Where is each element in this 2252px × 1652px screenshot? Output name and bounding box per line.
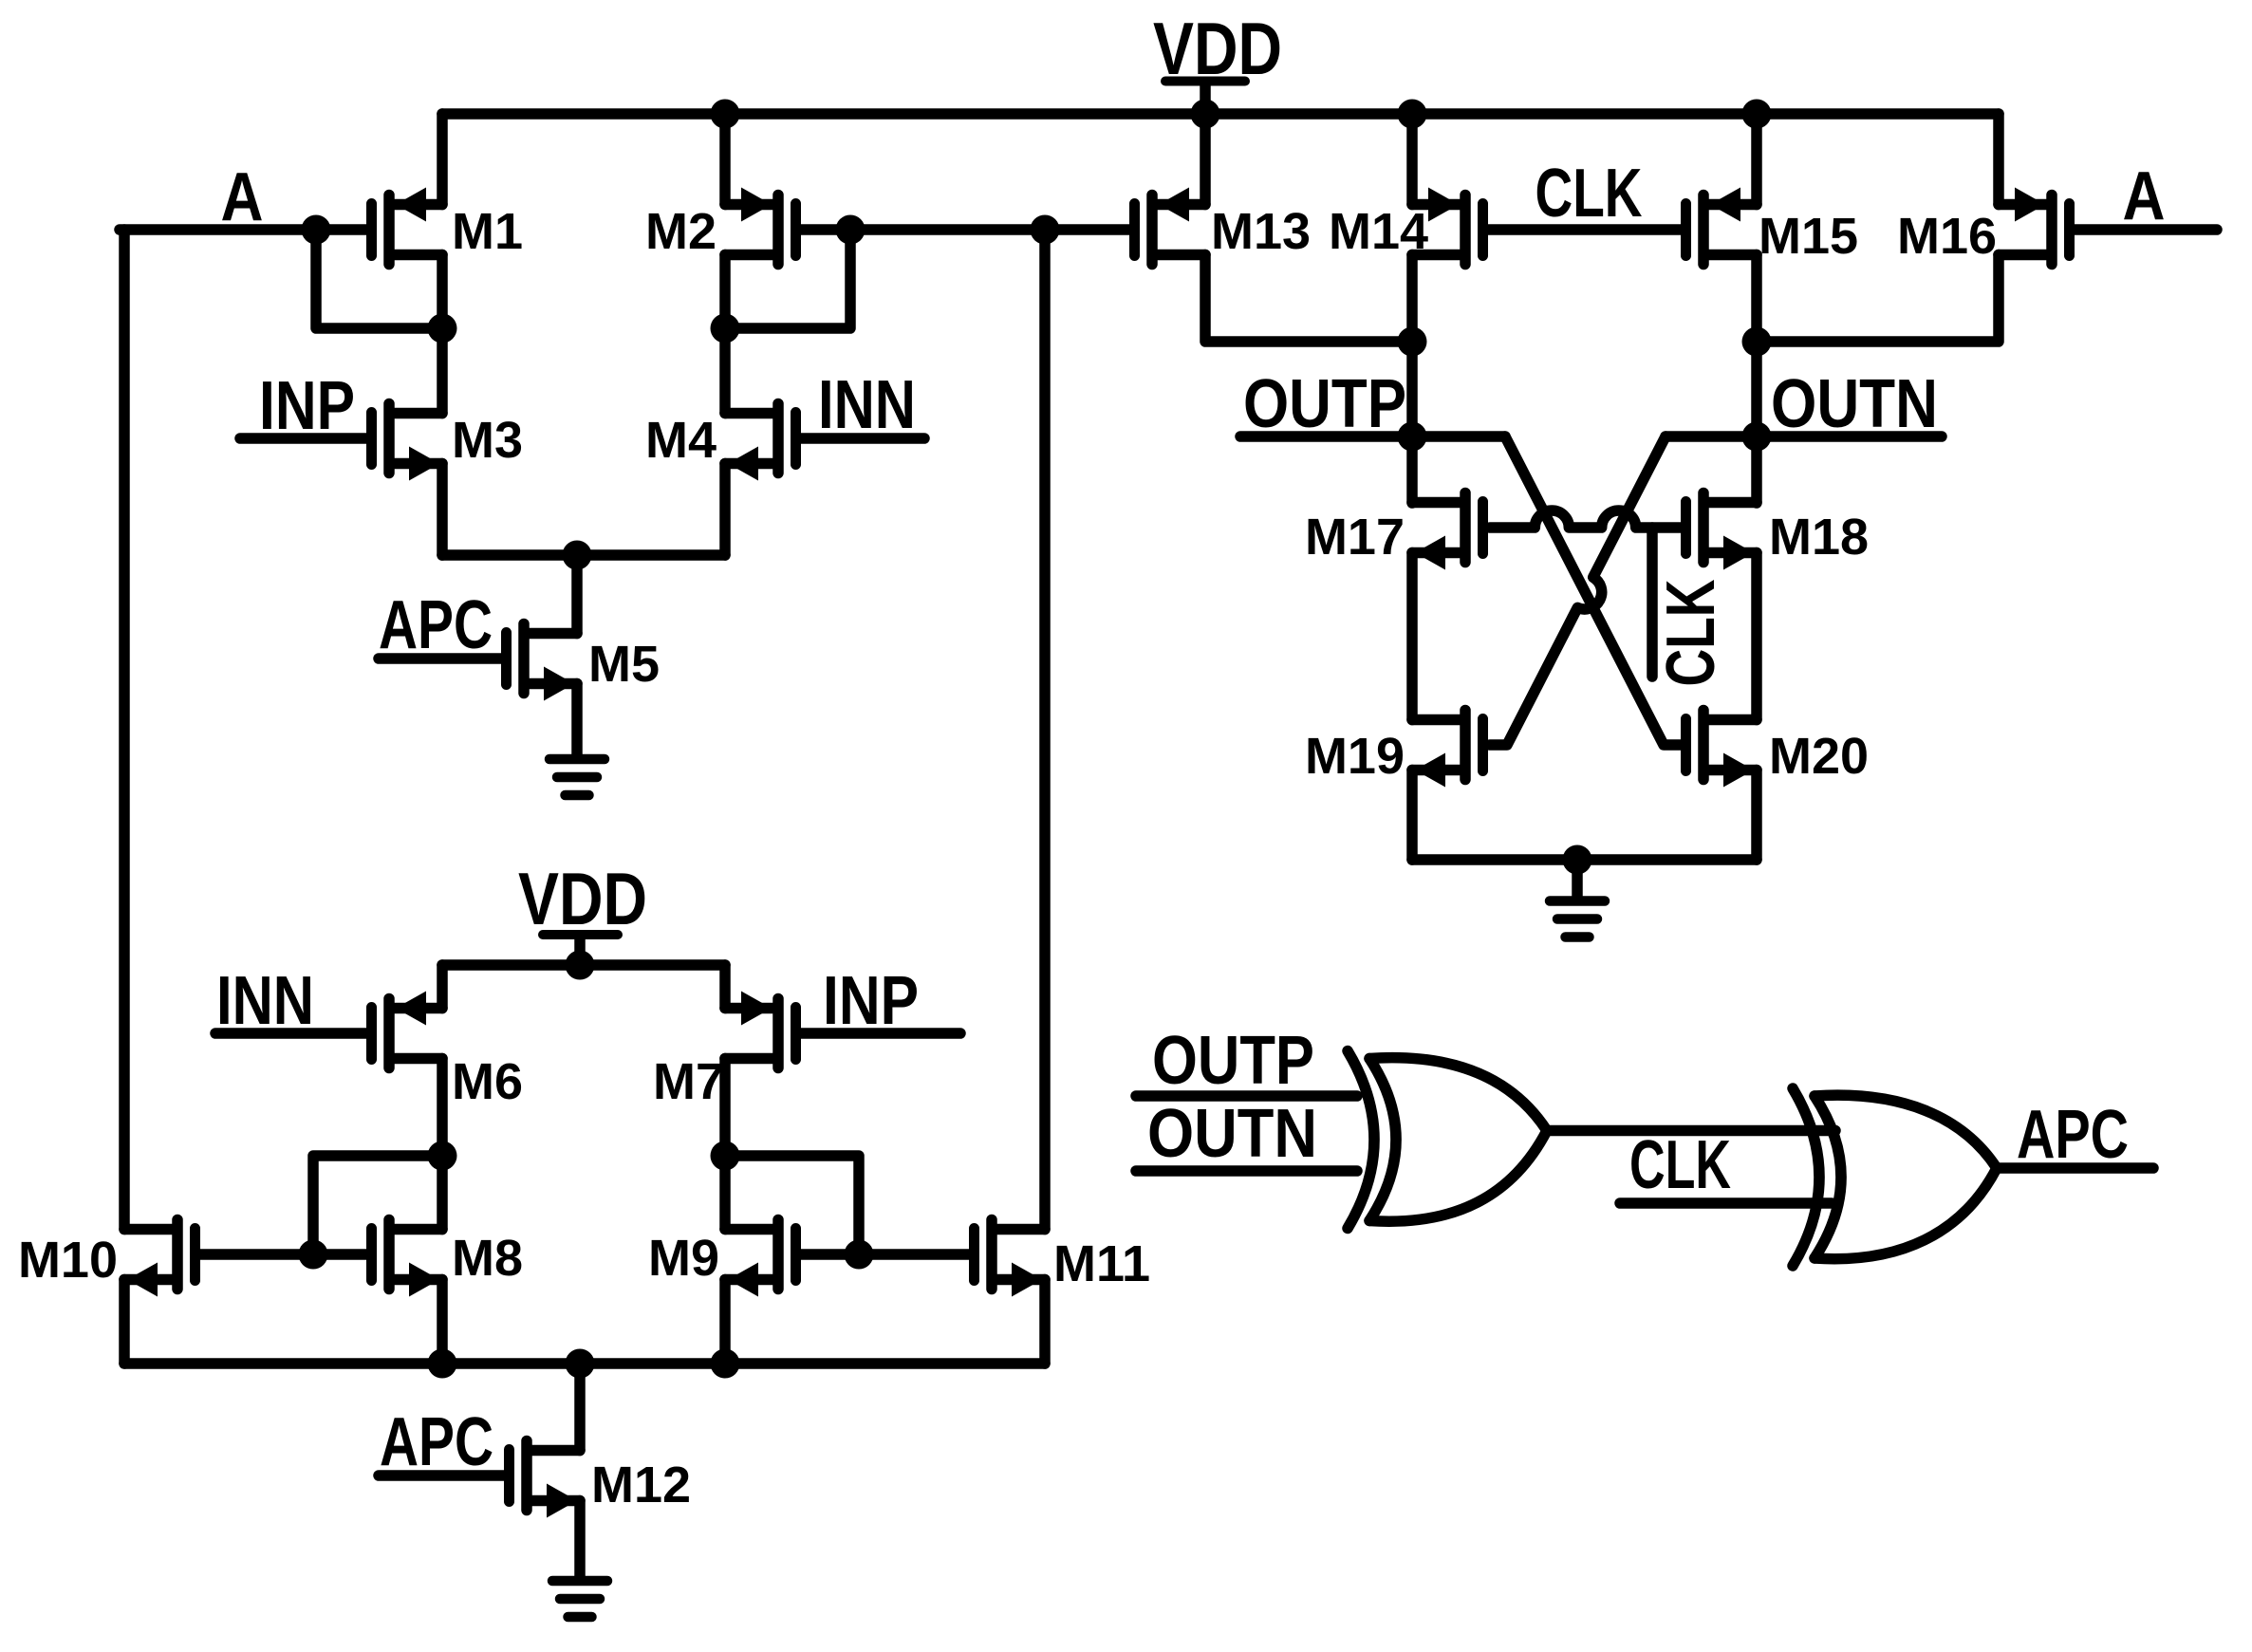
wire node A to M1 gate [120,224,366,235]
junction M9 gate / loop [845,1240,874,1270]
wire M14 source drop [1406,114,1418,205]
transistor M18 (NMOS) [1686,493,1870,570]
transistor M16 (PMOS) [1897,188,2070,266]
node OUTP (XOR input) [1152,1023,1314,1099]
wire M20 source to latch rail [1751,770,1762,861]
transistor M11 (NMOS) [975,1220,1151,1297]
junction rail / M14 source [1398,100,1427,129]
node APC (bottom) [380,1404,493,1480]
svg-text:M12: M12 [591,1457,691,1513]
transistor M14 (PMOS) [1329,188,1483,265]
wire M13 source drop [1200,114,1211,205]
transistor M5 (NMOS) [507,624,661,701]
wire VDD rail [442,108,1999,120]
transistor M6 (PMOS) [372,992,524,1111]
wire OUTP label wire [1240,431,1505,442]
wire VDD stub (bottom) [574,938,586,965]
svg-text:INN: INN [818,367,916,443]
wire M16 drain to OUTN [1757,255,1999,343]
transistor M17 (NMOS) [1305,493,1483,570]
junction latch rail / ground [1563,845,1592,875]
wire M9 mirror loop [725,1156,859,1249]
svg-text:A: A [221,159,264,235]
svg-text:M9: M9 [648,1230,719,1287]
svg-text:M2: M2 [645,203,717,260]
wire APC output [1997,1162,2153,1174]
svg-text:INN: INN [216,963,314,1039]
transistor M1 (PMOS) [372,188,524,265]
wire M6 source drop [437,965,448,1009]
wire M9 gate to M11 gate [801,1249,969,1260]
wire OUTP to M20 gate (diagonal) [1505,436,1681,745]
wire INP to M3 gate [240,433,366,444]
junction M8 gate / loop [299,1240,328,1270]
transistor M7 (PMOS) [653,992,796,1111]
XOR gate U1 (OUTP xor OUTN) [1348,1051,1547,1229]
transistor M19 (NMOS) [1305,711,1483,788]
wire M15 drain drop [1751,255,1762,343]
wire M5 source to ground [571,684,583,755]
wire latch ground stub [1572,860,1583,896]
svg-text:VDD: VDD [518,857,647,940]
svg-text:APC: APC [2017,1097,2129,1173]
wire M1 source drop [437,114,448,205]
junction tail / M5 drain [563,541,592,570]
transistor M12 (NMOS) [510,1441,692,1518]
svg-text:A: A [2123,158,2166,234]
wire M2 diode loop [731,230,850,328]
wire M10 gate to M8 gate [200,1249,366,1260]
svg-text:OUTN: OUTN [1147,1096,1317,1172]
node CLK (XOR input) [1629,1127,1731,1203]
svg-text:M17: M17 [1305,509,1405,566]
svg-text:M16: M16 [1897,208,1997,265]
wire OUTP to XOR1 [1136,1090,1357,1102]
wire M11 source drop [1039,1280,1051,1364]
wire latch gate rail M17-M18 (with hops) [1490,510,1681,528]
wire net B down to M11 gate [1039,230,1051,1230]
svg-text:INP: INP [823,963,919,1039]
transistor M20 (NMOS) [1686,711,1870,788]
wire OUTN label wire [1666,431,1942,442]
wire M12 drain stub [574,1364,586,1451]
wire VDD rail (bottom) [442,959,725,971]
wire latch bottom rail [1412,854,1757,865]
wire M4 source to tail [719,464,731,556]
svg-text:M10: M10 [18,1232,118,1289]
wire CLK to XOR2 [1620,1197,1832,1209]
wire VDD stub [1200,85,1211,115]
wire M2 source drop [719,114,731,205]
wire CLK stub (latch) [1647,528,1658,677]
svg-text:M8: M8 [452,1230,523,1287]
ground below M5 [549,759,605,795]
svg-text:CLK: CLK [1535,156,1643,232]
transistor M3 (NMOS) [372,404,524,481]
svg-text:M13: M13 [1211,203,1311,260]
junction OUTN / label wire [1742,422,1772,452]
wire M17 source to M19 drain [1406,553,1418,720]
junction M7 drain / mirror loop [711,1142,740,1171]
svg-text:OUTP: OUTP [1243,366,1406,442]
svg-text:APC: APC [380,1404,493,1480]
junction rail / M15 source [1742,100,1772,129]
node INN (top) [818,367,916,443]
ground below latch [1550,901,1605,937]
wire M5 drain stub [571,555,583,634]
svg-text:CLK: CLK [1653,580,1729,687]
wire XOR1 output [1547,1125,1835,1137]
wire M2 gate to M13 gate (net B) [801,224,1129,235]
XOR gate U2 (-> APC) [1793,1088,1997,1266]
transistor M15 (PMOS) [1686,188,1859,266]
node INN (bottom) [216,963,314,1039]
node OUTN (latch) [1771,366,1938,442]
node APC (XOR output) [2017,1097,2129,1173]
junction rail / M2 source [711,100,740,129]
node OUTN (XOR input) [1147,1096,1317,1172]
wire M16 source drop [1993,114,2004,205]
wire INN to M6 gate [215,1028,366,1039]
node INP (bottom) [823,963,919,1039]
wire M7 source drop [719,965,731,1009]
wire M9 source drop [719,1280,731,1364]
wire M14 drain / OUTP vertical [1406,255,1418,504]
svg-text:APC: APC [379,587,493,663]
node VDD (bottom) [518,857,647,940]
wire M18 source to M20 drain [1751,553,1762,720]
wire M13 drain to OUTP [1205,255,1412,343]
wire M3 source to tail [437,464,448,556]
junction net B / M11 gate branch [1031,215,1060,245]
node INP (top) [259,368,355,444]
transistor M2 (PMOS) [645,188,796,265]
svg-text:M5: M5 [588,636,660,693]
junction M2 drain / loop [711,314,740,343]
junction M6 drain / mirror loop [428,1142,457,1171]
wire left rail (A to M10 drain) [119,230,130,1230]
junction VDD stub / rail [1191,100,1220,129]
transistor M13 (PMOS) [1135,188,1312,265]
wire M15 source drop [1751,114,1762,205]
wire M2 drain to M4 drain [719,255,731,414]
svg-text:M11: M11 [1053,1235,1150,1292]
junction net B / M2 loop [836,215,865,245]
wire M8 source drop [437,1280,448,1364]
junction tail rail / M8 [428,1349,457,1379]
wire M10 source drop [119,1280,130,1364]
wire OUTN to XOR1 [1136,1165,1357,1177]
svg-text:M7: M7 [653,1053,724,1110]
wire INP to M7 gate [801,1028,960,1039]
svg-text:INP: INP [259,368,355,444]
svg-text:M20: M20 [1769,728,1869,785]
svg-text:M1: M1 [452,203,523,260]
ground below M12 [552,1581,607,1617]
wire INN to M4 gate [801,433,924,444]
svg-text:M4: M4 [645,412,717,469]
transistor M9 (NMOS) [648,1220,796,1297]
junction node A / diode loop [302,215,331,245]
wire M7 drain to M9 drain [719,1059,731,1230]
node VDD (top) [1153,7,1282,90]
wire APC to M5 gate [379,653,501,664]
wire tail of M3/M4 [442,549,725,561]
svg-text:M6: M6 [452,1053,523,1110]
wire M16 gate to node A (right) [2075,224,2217,235]
node APC (top) [379,587,493,663]
junction OUTP / label wire [1398,422,1427,452]
wire bottom tail rail [124,1358,1045,1369]
svg-text:M3: M3 [452,412,523,469]
svg-text:OUTN: OUTN [1771,366,1938,442]
wire M6 drain to M8 drain [437,1059,448,1230]
svg-text:M15: M15 [1759,208,1858,265]
junction VDD rail / stub (bottom) [566,951,595,980]
wire OUTN vertical to latch [1751,342,1762,503]
transistor M8 (NMOS) [372,1220,524,1297]
junction OUTN / M16 drain [1742,327,1772,357]
transistor M10 (NMOS) [18,1220,195,1297]
wire M19 source to latch rail [1406,770,1418,861]
svg-text:OUTP: OUTP [1152,1023,1314,1099]
svg-text:CLK: CLK [1629,1127,1731,1203]
wire CLK between M14 and M15 gates [1488,224,1681,235]
node OUTP (latch) [1243,366,1406,442]
wire OUTN to M19 gate (diagonal) [1490,436,1666,745]
junction tail rail / M12 [566,1349,595,1379]
wire M1 diode loop [316,230,437,328]
junction M1 drain / loop [428,314,457,343]
junction tail rail / M9 [711,1349,740,1379]
svg-text:M19: M19 [1305,728,1405,785]
wire M8 mirror loop [313,1156,442,1249]
wire M12 source to ground [574,1501,586,1577]
junction OUTP / M13 drain [1398,327,1427,357]
wire APC to M12 gate [379,1470,504,1481]
wire M1 drain to M3 drain [437,255,448,414]
svg-text:M18: M18 [1769,509,1869,566]
transistor M4 (NMOS) [645,404,796,481]
